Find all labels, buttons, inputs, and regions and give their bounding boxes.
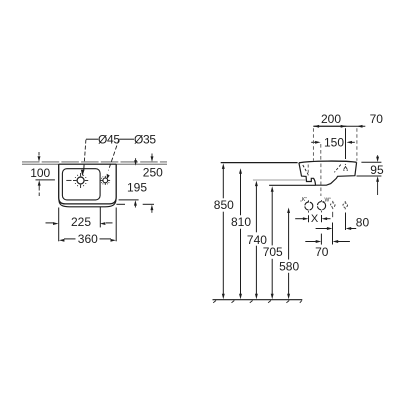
svg-text:150: 150	[324, 135, 344, 149]
svg-text:Ø35: Ø35	[134, 132, 156, 146]
svg-text:195: 195	[127, 181, 147, 195]
svg-text:X: X	[311, 213, 319, 225]
svg-text:Ø45: Ø45	[98, 132, 120, 146]
svg-text:580: 580	[279, 259, 299, 273]
svg-text:95: 95	[370, 163, 384, 177]
svg-text:80: 80	[356, 216, 370, 230]
svg-text:705: 705	[263, 245, 283, 259]
svg-text:810: 810	[231, 215, 251, 229]
svg-text:„W“: „W“	[323, 197, 331, 203]
svg-text:200: 200	[321, 112, 341, 126]
svg-text:70: 70	[315, 245, 329, 259]
svg-text:„K“: „K“	[300, 197, 307, 203]
svg-text:70: 70	[370, 112, 384, 126]
svg-text:225: 225	[71, 215, 91, 229]
svg-text:850: 850	[214, 198, 234, 212]
svg-text:100: 100	[30, 166, 50, 180]
svg-text:250: 250	[143, 165, 163, 179]
svg-text:360: 360	[78, 232, 98, 246]
